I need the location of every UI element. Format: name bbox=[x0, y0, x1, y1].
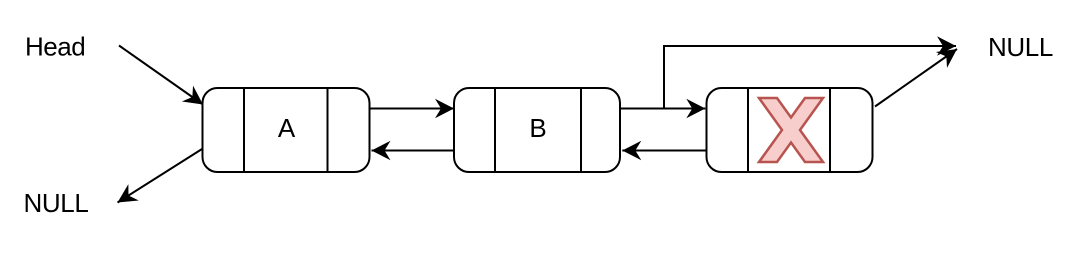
svg-text:B: B bbox=[529, 113, 546, 143]
svg-text:NULL: NULL bbox=[24, 188, 89, 218]
svg-text:Head: Head bbox=[25, 32, 85, 62]
svg-text:A: A bbox=[278, 113, 296, 143]
svg-text:NULL: NULL bbox=[988, 32, 1053, 62]
